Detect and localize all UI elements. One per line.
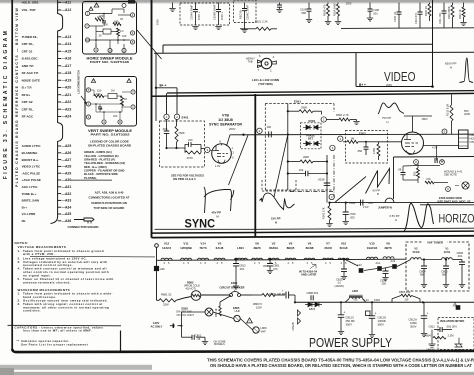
connector symbol <box>74 218 94 222</box>
junction dot video box <box>431 85 434 88</box>
svg-text:472K: 472K <box>187 156 194 160</box>
svg-text:B.+ T.P.: B.+ T.P. <box>22 86 33 90</box>
svg-text:—A21: —A21 <box>62 93 72 97</box>
svg-text:SEE FIG FOR VOLTAGES: SEE FIG FOR VOLTAGES <box>171 174 204 178</box>
svg-text:AUDIO LYTIC: AUDIO LYTIC <box>22 144 42 148</box>
svg-text:250: 250 <box>382 282 387 286</box>
svg-text:1M: 1M <box>111 89 115 93</box>
svg-text:LOCATING NOTCH: LOCATING NOTCH <box>77 70 81 93</box>
svg-text:ON VOL CONT: ON VOL CONT <box>177 313 195 317</box>
svg-text:120K: 120K <box>372 148 376 154</box>
svg-text:V11: V11 <box>183 241 189 245</box>
svg-text:SEE NOTE: SEE NOTE <box>444 173 457 177</box>
node 3 circled <box>205 147 210 152</box>
section divider line 2 <box>152 236 474 238</box>
svg-text:THIS SCHEMATIC COVERS PLATED C: THIS SCHEMATIC COVERS PLATED CHASSIS BOA… <box>207 357 474 362</box>
resistor R109 1K <box>429 3 431 4</box>
L901 coil box <box>459 130 469 149</box>
svg-text:-AGC PULSE: -AGC PULSE <box>22 171 41 175</box>
svg-text:A37, A38, A39 & A40: A37, A38, A39 & A40 <box>95 191 124 195</box>
svg-text:H: H <box>395 218 397 222</box>
svg-text:.001: .001 <box>457 254 463 258</box>
tuner cap C805 680 <box>445 260 447 267</box>
warning triangle ps <box>247 318 253 323</box>
circled 8 in E506 <box>414 160 419 165</box>
15V PP waveform <box>260 193 295 209</box>
capacitor C822 250 <box>385 268 387 272</box>
svg-text:+: + <box>375 312 377 316</box>
svg-text:250 MF: 250 MF <box>346 319 356 323</box>
capacitor C106 680 <box>308 3 310 9</box>
resistor R110 680K <box>452 3 454 5</box>
svg-text:2.2M: 2.2M <box>448 334 455 338</box>
horiz sweep module internals <box>94 3 99 7</box>
svg-text:C104A 30MF: C104A 30MF <box>189 4 193 20</box>
svg-text:HOLD. GRS.: HOLD. GRS. <box>22 1 40 5</box>
cap .02 near tube <box>435 158 437 163</box>
capacitor C813 .001 <box>235 260 237 264</box>
plate wire to right <box>227 135 231 146</box>
svg-text:AND LATER: AND LATER <box>301 273 316 277</box>
svg-text:—A27: —A27 <box>62 158 72 162</box>
svg-text:TUNER FIL,: TUNER FIL, <box>22 35 39 39</box>
adj coil symbol in E506 <box>462 182 469 189</box>
svg-text:HORIZO: HORIZO <box>439 211 474 225</box>
svg-text:V14: V14 <box>200 241 206 245</box>
svg-text:—A23: —A23 <box>62 107 72 111</box>
svg-text:DET: DET <box>308 137 314 141</box>
svg-text:CRT FIL,: CRT FIL, <box>22 42 34 46</box>
svg-text:—A32: —A32 <box>62 192 72 196</box>
capacitor .005 <box>166 120 168 132</box>
svg-text:680: 680 <box>302 11 307 15</box>
svg-text:R109 1K: R109 1K <box>424 6 428 16</box>
C802 cap on some models <box>182 336 193 338</box>
svg-text:300V: 300V <box>378 322 385 326</box>
svg-text:RF B+: RF B+ <box>22 93 31 97</box>
main frame left vertical <box>151 0 153 238</box>
svg-text:B.4SS.OSC: B.4SS.OSC <box>22 57 39 61</box>
svg-text:750: 750 <box>353 298 358 302</box>
svg-text:H: H <box>217 215 219 219</box>
node 2 circled <box>174 114 179 119</box>
svg-text:1.0V: 1.0V <box>215 164 221 168</box>
svg-text:AC ONLY: AC ONLY <box>151 325 163 329</box>
svg-text:JUMPER W: JUMPER W <box>378 206 393 210</box>
45V PP waveform <box>204 187 234 213</box>
vertical wire x288 <box>287 104 289 191</box>
svg-text:(SEE PART NOS. MOD. SE: (SEE PART NOS. MOD. SE <box>437 200 471 204</box>
svg-text:V15: V15 <box>369 241 375 245</box>
svg-text:10K: 10K <box>122 34 127 38</box>
svg-text:E804: E804 <box>309 307 316 311</box>
svg-text:390K: 390K <box>301 105 307 109</box>
svg-text:—A30: —A30 <box>62 178 72 182</box>
svg-text:R111 1K: R111 1K <box>458 9 462 19</box>
svg-text:C812C: C812C <box>346 315 355 319</box>
svg-text:R804: R804 <box>425 334 432 338</box>
svg-text:—A12: —A12 <box>62 8 72 12</box>
svg-text:1K: 1K <box>124 97 127 101</box>
divider above sync bottom <box>155 228 256 230</box>
svg-text:antenna terminals shorted.: antenna terminals shorted. <box>23 281 71 285</box>
VIDEO box bottom <box>356 86 433 88</box>
svg-text:200V: 200V <box>229 127 236 131</box>
svg-text:130V: 130V <box>153 321 159 325</box>
connector pins A13-A24 <box>58 36 62 38</box>
svg-text:300V: 300V <box>346 322 353 326</box>
svg-text:V3: V3 <box>272 241 276 245</box>
svg-text:POWER SUPPLY: POWER SUPPLY <box>309 335 392 350</box>
svg-text:16: 16 <box>108 49 112 53</box>
svg-text:9V PP: 9V PP <box>373 188 381 192</box>
svg-text:3BT6: 3BT6 <box>384 246 392 250</box>
svg-text:GND T.P.: GND T.P. <box>22 64 34 68</box>
wire from A30 <box>71 179 113 181</box>
svg-text:—A19: —A19 <box>62 78 72 82</box>
resistor 150K <box>176 120 178 127</box>
node 4 circled lower <box>329 194 334 199</box>
svg-text:BRITE, SAW: BRITE, SAW <box>22 199 40 203</box>
left frame border <box>11 0 13 351</box>
svg-text:195V: 195V <box>156 19 160 25</box>
svg-text:1.: 1. <box>18 249 21 253</box>
node 3 circled horiz <box>330 145 335 150</box>
svg-text:C806: C806 <box>457 251 464 255</box>
svg-text:VARIOUS POSITIONS ON: VARIOUS POSITIONS ON <box>91 201 127 205</box>
wire plug to switch <box>181 312 183 326</box>
svg-text:470: 470 <box>273 267 278 271</box>
svg-text:2W: 2W <box>405 298 409 302</box>
svg-text:R101 2.2K: R101 2.2K <box>255 20 268 24</box>
svg-text:E805: E805 <box>233 306 240 310</box>
wires in E506 <box>403 165 418 168</box>
svg-text:2 KV: 2 KV <box>363 205 369 209</box>
svg-text:470: 470 <box>99 14 104 18</box>
B+ rail wire <box>295 301 474 303</box>
svg-text:C812B: C812B <box>291 322 295 330</box>
dashed enclosure fragment <box>262 190 296 192</box>
svg-text:—A28: —A28 <box>62 165 72 169</box>
capacitor C104C <box>244 3 246 9</box>
L101 L102 connector symbol <box>261 58 272 69</box>
horiz osc tube V9A <box>402 132 424 154</box>
svg-text:VHF TUNER: VHF TUNER <box>427 241 443 245</box>
svg-text:UHF: UHF <box>235 309 241 313</box>
svg-text:CRT FIL.: CRT FIL. <box>22 107 34 111</box>
svg-text:680: 680 <box>420 273 425 277</box>
svg-text:6CG8: 6CG8 <box>340 246 348 250</box>
svg-text:RF AGC T.P.: RF AGC T.P. <box>22 71 39 75</box>
svg-text:.005: .005 <box>350 215 356 219</box>
svg-text:—A35: —A35 <box>62 212 72 216</box>
svg-text:L801: L801 <box>237 246 244 250</box>
svg-text:V.C.LPRR: V.C.LPRR <box>22 212 37 216</box>
big horiz waveform <box>404 203 434 231</box>
svg-text:4Ω HOT): 4Ω HOT) <box>186 286 196 290</box>
svg-text:—A11: —A11 <box>62 1 72 5</box>
svg-text:R512 8.2K: R512 8.2K <box>445 103 449 116</box>
power supply left vertical <box>120 331 122 351</box>
svg-text:—A34: —A34 <box>62 205 72 209</box>
svg-text:L901: L901 <box>470 133 474 137</box>
horiz sweep module box <box>83 2 137 55</box>
diagonal wire to 15V waveform <box>274 136 288 197</box>
cap C812A <box>423 302 425 316</box>
svg-text:R110 680K: R110 680K <box>447 6 451 19</box>
svg-text:.001: .001 <box>239 267 245 271</box>
wire module to frame <box>137 30 162 59</box>
junction and wire y202 <box>328 202 330 204</box>
node 1 circled horiz <box>321 117 326 122</box>
section divider line 1 <box>152 231 474 233</box>
svg-text:ON SHOULD HAVE A PLATED CHASSI: ON SHOULD HAVE A PLATED CHASSIS BOARD, O… <box>210 363 472 368</box>
svg-text:VIDEO: VIDEO <box>384 69 416 84</box>
cabinet gnd <box>431 330 433 342</box>
svg-text:C104C 30MF: C104C 30MF <box>246 4 250 20</box>
svg-text:GND: GND <box>456 351 461 353</box>
svg-text:VOL. TOP: VOL. TOP <box>22 8 36 12</box>
junction dots ps <box>181 325 183 327</box>
svg-text:B+ +: B+ + <box>359 83 366 87</box>
svg-text:V6: V6 <box>308 241 312 245</box>
svg-text:R861 52: R861 52 <box>161 292 172 296</box>
svg-text:C80R 140 MF: C80R 140 MF <box>269 292 286 296</box>
wire from diodes to wire134 <box>288 134 303 136</box>
svg-text:BOOST B++: BOOST B++ <box>22 158 39 162</box>
wire with ground x172 <box>172 3 174 8</box>
notes underline <box>30 255 155 258</box>
svg-text:1/2 38U8: 1/2 38U8 <box>218 118 233 122</box>
svg-text:100: 100 <box>267 125 272 129</box>
heater string wire <box>157 259 407 260</box>
capacitor C501 .005 <box>345 203 347 212</box>
svg-text:PLATING,: PLATING, <box>84 176 97 180</box>
phase det diodes lower <box>303 141 320 146</box>
svg-text:SYNC: SYNC <box>185 217 216 231</box>
A36 contact <box>154 266 159 271</box>
resistor 820 in E506 <box>417 168 420 178</box>
svg-text:—A16: —A16 <box>62 57 72 61</box>
svg-text:CONNECTOR BOARD: CONNECTOR BOARD <box>67 225 99 229</box>
svg-text:H: H <box>450 66 452 70</box>
svg-text:150V +: 150V + <box>220 11 224 20</box>
L806 VHF lamp <box>253 327 259 333</box>
svg-text:—A20: —A20 <box>62 86 72 90</box>
connector pins A25-A36 <box>58 145 62 147</box>
svg-text:+: + <box>344 311 346 315</box>
svg-text:PLATED CHASSIS BOARD REFERENCE: PLATED CHASSIS BOARD REFERENCE CONTACTS … <box>15 7 19 187</box>
capacitor C815 <box>343 260 345 270</box>
svg-text:C111 .001: C111 .001 <box>438 12 442 24</box>
capacitor C104A <box>195 3 197 10</box>
wire from breaker right <box>252 294 262 296</box>
svg-text:condition.: condition. <box>23 309 41 313</box>
svg-text:.001 2KV: .001 2KV <box>446 324 457 328</box>
notes separator <box>8 324 122 327</box>
RC parallel 220 / 472K <box>167 147 186 149</box>
E502 phase det dashed box <box>301 123 322 149</box>
svg-text:V8: V8 <box>386 241 390 245</box>
svg-text:E401: E401 <box>182 116 189 120</box>
svg-text:680: 680 <box>442 273 447 277</box>
svg-text:12AF3: 12AF3 <box>162 246 171 250</box>
svg-text:.0039: .0039 <box>318 178 325 182</box>
svg-text:10: 10 <box>86 38 90 42</box>
svg-text:4.: 4. <box>18 267 21 271</box>
video band lower line <box>154 52 474 53</box>
circled 5 in E506 <box>440 160 445 165</box>
svg-text:150: 150 <box>97 89 102 93</box>
svg-text:680: 680 <box>114 20 119 24</box>
divider double line y92 <box>167 91 474 93</box>
tube V7B circle <box>212 144 232 164</box>
svg-text:—A24: —A24 <box>62 115 72 119</box>
svg-text:FIGURE 33. SCHEMATIC DIAGRAM: FIGURE 33. SCHEMATIC DIAGRAM <box>3 29 9 179</box>
svg-text:3.: 3. <box>18 260 21 264</box>
svg-text:PART NO. S19T5436: PART NO. S19T5436 <box>90 60 130 64</box>
svg-text:E503: E503 <box>359 132 366 136</box>
svg-text:.001: .001 <box>373 11 379 15</box>
svg-text:NOTES:: NOTES: <box>15 241 29 245</box>
svg-text:150V +: 150V + <box>197 11 201 20</box>
chassis gnd <box>458 338 460 344</box>
svg-text:C104B 30MF: C104B 30MF <box>212 4 216 20</box>
tuner heater bumps <box>411 258 422 260</box>
svg-text:.05: .05 <box>98 34 102 38</box>
svg-text:3SU8: 3SU8 <box>324 246 332 250</box>
connector pins A11-A12 <box>58 1 62 3</box>
vert sweep module internals <box>91 79 95 83</box>
svg-text:VIDEO LYTIC: VIDEO LYTIC <box>22 165 41 169</box>
svg-text:5.: 5. <box>18 277 21 281</box>
cap C812C <box>340 302 342 315</box>
scan edge shading top <box>0 0 474 3</box>
E503 dashed box <box>346 131 388 164</box>
E506 box <box>393 157 395 199</box>
capacitor C105 <box>279 3 281 5</box>
svg-text:10W: 10W <box>256 305 262 309</box>
svg-text:820: 820 <box>413 171 417 176</box>
svg-text:E506 HORIZ MOD: E506 HORIZ MOD <box>439 196 462 200</box>
svg-text:TAB: TAB <box>248 60 253 64</box>
circled 9 near tube <box>442 129 447 134</box>
svg-text:7EY6: 7EY6 <box>199 246 207 250</box>
scan edge shading bottom-left <box>0 365 152 370</box>
bottom frame border <box>12 349 474 352</box>
svg-text:C109 .01: C109 .01 <box>393 11 397 22</box>
svg-text:C811: C811 <box>429 324 436 328</box>
svg-text:R501 2.7K: R501 2.7K <box>336 113 349 117</box>
svg-text:200V: 200V <box>386 83 392 87</box>
svg-text:VHF: VHF <box>261 329 267 333</box>
svg-text:BLANKING: BLANKING <box>22 151 38 155</box>
svg-text:V5: V5 <box>218 241 222 245</box>
svg-text:SYNC SEPARATOR: SYNC SEPARATOR <box>209 123 242 127</box>
tuner cap C804 680 <box>423 260 425 267</box>
svg-text:MODELS: MODELS <box>214 342 225 346</box>
top band right wire line <box>341 27 474 30</box>
svg-text:V8: V8 <box>255 241 259 245</box>
svg-text:V7B: V7B <box>222 114 229 118</box>
VHF tuner label <box>423 240 447 245</box>
capacitor C108 .001 <box>369 3 371 9</box>
svg-text:See Parts List for proper repl: See Parts List for proper replacement <box>21 342 88 346</box>
phase det diodes upper <box>303 125 320 130</box>
svg-text:—A26: —A26 <box>62 151 72 155</box>
tube V7B internals <box>213 146 228 164</box>
svg-text:C812D: C812D <box>378 315 387 319</box>
svg-text:L802: L802 <box>352 289 358 293</box>
sync/horiz divider vertical <box>254 94 256 237</box>
svg-text:190V: 190V <box>374 298 380 302</box>
connector board outline <box>51 0 63 224</box>
svg-text:100: 100 <box>299 168 304 172</box>
svg-text:180V: 180V <box>422 117 428 121</box>
resistor R10B 470 <box>327 3 329 4</box>
node 4 circled <box>338 136 343 141</box>
horiz section bottom line <box>256 228 474 229</box>
capacitor C104B <box>218 3 220 10</box>
sawtooth 9V PP <box>366 169 390 194</box>
B++ feed wires <box>155 53 157 121</box>
svg-text:ON PINS #1,2,& 3: ON PINS #1,2,& 3 <box>173 177 196 181</box>
svg-text:10MF: 10MF <box>410 321 417 325</box>
vertical wire x327 <box>326 155 328 203</box>
svg-text:1500: 1500 <box>346 2 352 6</box>
isolation network box <box>438 318 474 350</box>
E401 dashed box <box>160 121 205 167</box>
svg-text:—A22: —A22 <box>62 100 72 104</box>
svg-text:CRT G2: CRT G2 <box>22 100 33 104</box>
top band lower line <box>163 43 433 46</box>
svg-text:V1: V1 <box>445 246 449 250</box>
E501 dashed box <box>265 103 334 105</box>
svg-text:8BQ5: 8BQ5 <box>287 246 295 250</box>
svg-text:OSC: OSC <box>470 140 474 144</box>
long vertical wire to video box <box>432 0 434 87</box>
svg-text:PART NO. S19T3352: PART NO. S19T3352 <box>91 133 131 137</box>
svg-text:TONE B++: TONE B++ <box>22 192 37 196</box>
svg-text:—A18: —A18 <box>62 71 72 75</box>
dashed box C104A/C104B <box>180 3 230 25</box>
svg-text:A23: A23 <box>357 263 362 267</box>
jumper arc <box>385 198 394 203</box>
svg-text:1.13: 1.13 <box>364 298 370 302</box>
resistor R111 1K <box>463 3 465 7</box>
svg-text:25W: 25W <box>163 303 169 307</box>
grid wire left <box>402 141 404 143</box>
tube plate wire up <box>412 116 414 132</box>
svg-text:C812A: C812A <box>409 317 418 321</box>
svg-text:8GN8: 8GN8 <box>306 246 314 250</box>
svg-text:NOISE GATE: NOISE GATE <box>22 78 40 82</box>
svg-text:C110 470: C110 470 <box>414 13 418 24</box>
svg-text:1.: 1. <box>18 292 21 296</box>
svg-text:V7: V7 <box>326 241 330 245</box>
power supply lower wire <box>156 271 158 300</box>
svg-text:6.5V PP: 6.5V PP <box>390 214 400 218</box>
diagonal wire to waveform <box>229 135 249 185</box>
vert sweep module box <box>85 77 137 127</box>
75V PP waveform horiz <box>378 103 404 114</box>
svg-text:FIL: FIL <box>22 219 27 223</box>
svg-text:300V: 300V <box>410 324 417 328</box>
svg-text:—A33: —A33 <box>62 199 72 203</box>
svg-text:A13: A13 <box>391 259 396 263</box>
svg-text:—A15: —A15 <box>62 49 72 53</box>
svg-text:B++: B++ <box>22 205 28 209</box>
